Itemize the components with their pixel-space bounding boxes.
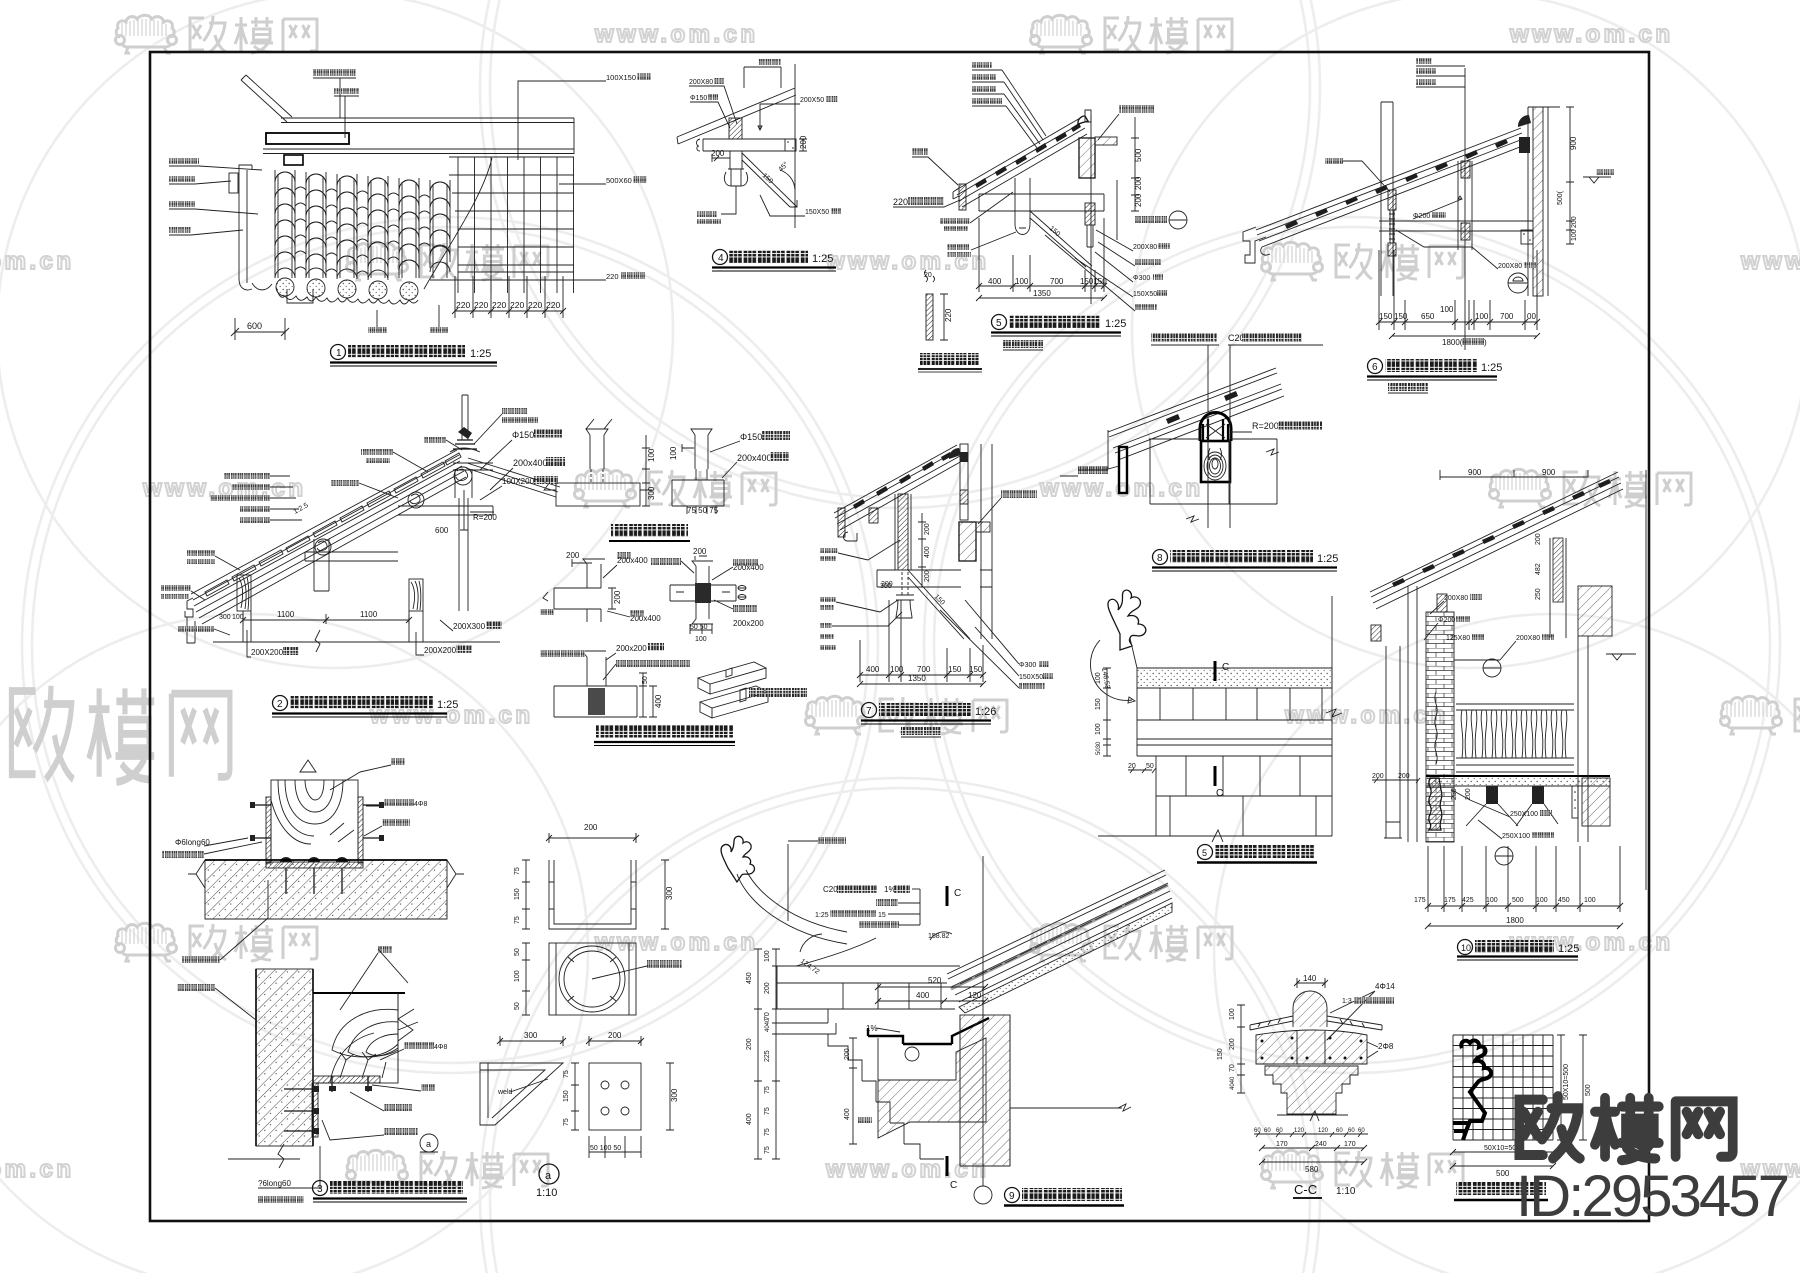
svg-text:200X80: 200X80 xyxy=(1498,263,1522,270)
svg-text:220: 220 xyxy=(944,308,953,322)
svg-text:4: 4 xyxy=(718,253,724,264)
left eave gutter and downpipe xyxy=(185,598,195,643)
svg-text:220: 220 xyxy=(510,300,524,310)
right short slope xyxy=(466,458,560,497)
svg-text:150: 150 xyxy=(514,888,521,900)
svg-text:1100: 1100 xyxy=(360,610,378,619)
leaders to right labels xyxy=(940,600,1019,688)
sculpture outline bold xyxy=(1454,1040,1491,1131)
stipple along slope underside xyxy=(959,903,1172,1013)
dome cap xyxy=(1293,991,1327,1027)
svg-text:50 100 50: 50 100 50 xyxy=(590,1145,621,1152)
svg-text:500(: 500( xyxy=(1557,190,1564,205)
svg-text:170: 170 xyxy=(1344,1141,1356,1148)
diagonal brace xyxy=(1030,211,1092,267)
drawing 3: timber to existing building connection xyxy=(162,758,467,1203)
svg-text:200x400: 200x400 xyxy=(737,453,772,463)
ground xyxy=(1277,1111,1348,1121)
right dims xyxy=(1557,1035,1587,1140)
drawing: beam crossing details xyxy=(540,547,807,746)
watermark: large omw left margin xyxy=(11,686,229,782)
svg-text:?6long60: ?6long60 xyxy=(258,1179,291,1188)
triangle gusset xyxy=(480,1063,563,1125)
svg-text:75: 75 xyxy=(764,1146,771,1154)
svg-text:75: 75 xyxy=(764,1086,771,1094)
dims 520 400 120 xyxy=(875,984,988,990)
side steel plates xyxy=(266,797,271,863)
drawing: steel fittings details xyxy=(480,823,682,1199)
svg-text:482: 482 xyxy=(1535,563,1542,575)
side wings xyxy=(1250,1016,1382,1030)
svg-text:450: 450 xyxy=(746,972,753,984)
svg-text:1:25: 1:25 xyxy=(1481,362,1502,374)
roof slope lines xyxy=(956,117,1087,207)
svg-text:100: 100 xyxy=(1440,305,1454,314)
right hanging member xyxy=(1085,203,1095,225)
break marks xyxy=(1186,449,1279,522)
svg-text:1:25: 1:25 xyxy=(1317,553,1338,565)
left columns xyxy=(1384,586,1417,842)
svg-text:220: 220 xyxy=(606,272,619,281)
svg-text:1:25: 1:25 xyxy=(470,348,491,360)
svg-text:150: 150 xyxy=(1217,1048,1224,1060)
grid xyxy=(1453,1035,1553,1140)
drip edge curve xyxy=(424,158,492,289)
svg-text:200: 200 xyxy=(1398,773,1410,780)
svg-text:120: 120 xyxy=(1294,1128,1305,1134)
left label stack xyxy=(210,473,302,523)
sloped rafter lines xyxy=(677,88,796,144)
C section marks xyxy=(946,886,949,906)
stepped beams xyxy=(305,463,493,561)
beam top line and end xyxy=(398,993,413,1083)
svg-text:200: 200 xyxy=(881,581,893,588)
svg-text:200: 200 xyxy=(608,1031,622,1040)
gutter bold profile xyxy=(868,1028,952,1044)
svg-text:1:25: 1:25 xyxy=(1558,943,1579,955)
svg-text:50X10=50: 50X10=50 xyxy=(1484,1145,1516,1152)
svg-text:R=200: R=200 xyxy=(1252,421,1279,431)
svg-text:70: 70 xyxy=(1229,1064,1236,1072)
round log arch bold xyxy=(1200,412,1231,441)
svg-text:2: 2 xyxy=(277,699,283,710)
plate with 4 holes xyxy=(589,1063,641,1130)
ornament neck curve xyxy=(737,870,847,944)
bottom hook bracket xyxy=(287,289,313,303)
svg-text:220: 220 xyxy=(474,300,488,310)
base plate xyxy=(266,862,363,868)
svg-text:1:25: 1:25 xyxy=(812,253,833,265)
svg-text:5030: 5030 xyxy=(1096,741,1102,755)
dim 200 right xyxy=(799,139,807,151)
drain label xyxy=(858,1117,872,1123)
right ornament column xyxy=(949,448,961,459)
hatched column xyxy=(1079,138,1095,178)
label tile end xyxy=(912,148,928,155)
eave end lines xyxy=(1108,430,1119,469)
dims 900 900 xyxy=(1440,470,1588,480)
label balcony slab xyxy=(1119,105,1155,113)
short post under ridge xyxy=(455,469,472,498)
svg-text:200: 200 xyxy=(566,551,580,560)
right dotted block xyxy=(1521,230,1533,244)
drawing: post on beam details xyxy=(544,419,790,541)
bottom dim chain xyxy=(1428,846,1620,912)
svg-text:Φ200: Φ200 xyxy=(1413,213,1430,220)
svg-text:50 50: 50 50 xyxy=(690,624,708,631)
left labels xyxy=(820,548,838,553)
svg-text:150: 150 xyxy=(1394,312,1408,321)
main left slope xyxy=(191,450,466,624)
detail C bottom xyxy=(554,651,637,717)
svg-text:220: 220 xyxy=(456,300,470,310)
stepped profile down xyxy=(828,1034,944,1159)
drawing C-C section xyxy=(1217,974,1395,1198)
hatched packing block xyxy=(869,508,878,523)
svg-text:450: 450 xyxy=(1558,897,1570,904)
brick pillar xyxy=(1426,612,1454,842)
svg-text:a: a xyxy=(545,1170,552,1182)
svg-text:200x400: 200x400 xyxy=(513,458,548,468)
svg-text:200: 200 xyxy=(1535,533,1542,545)
svg-text:ID:2953457: ID:2953457 xyxy=(1516,1164,1790,1229)
wood grain column xyxy=(1201,441,1230,482)
rosette circles on posts xyxy=(315,467,472,555)
svg-text:250: 250 xyxy=(1535,588,1542,600)
svg-text:2Φ8: 2Φ8 xyxy=(1378,1042,1394,1051)
svg-text:200: 200 xyxy=(1134,176,1143,190)
svg-text:75: 75 xyxy=(764,1128,771,1136)
dim 140 top xyxy=(1294,978,1328,988)
dim 220 xyxy=(940,294,948,340)
svg-text:170: 170 xyxy=(1276,1141,1288,1148)
gutter hatched block xyxy=(878,1038,986,1138)
svg-text:650: 650 xyxy=(1421,312,1435,321)
svg-text:50: 50 xyxy=(1146,763,1154,770)
svg-text:50X10=500: 50X10=500 xyxy=(1563,1064,1570,1100)
balcony slab hatched xyxy=(959,522,976,561)
watermark lattice row B xyxy=(0,242,1800,280)
svg-text:150X50: 150X50 xyxy=(805,209,829,216)
beams horizontal xyxy=(877,570,992,587)
svg-text:5: 5 xyxy=(1202,848,1207,858)
svg-text:C: C xyxy=(954,888,961,899)
anchor heads and rods xyxy=(280,857,348,862)
svg-text:200X80: 200X80 xyxy=(1133,244,1157,251)
angle arc 158 xyxy=(930,932,952,940)
svg-text:1350: 1350 xyxy=(908,674,926,683)
svg-text:75: 75 xyxy=(563,1118,570,1126)
svg-text:1: 1 xyxy=(336,348,342,359)
svg-text:weld: weld xyxy=(497,1089,513,1096)
center post xyxy=(1015,178,1030,235)
concrete slab hatched xyxy=(205,860,447,919)
svg-text:200: 200 xyxy=(584,823,598,832)
purlin bold rect xyxy=(266,133,349,144)
wall axis vertical xyxy=(794,64,796,228)
top label stack xyxy=(1416,58,1465,87)
svg-text:1:26: 1:26 xyxy=(975,706,996,718)
svg-text:1:10: 1:10 xyxy=(1336,1186,1356,1197)
ground line xyxy=(1098,830,1332,842)
detail B cross xyxy=(670,561,736,624)
left leader label B1 xyxy=(169,158,199,164)
svg-text:200: 200 xyxy=(693,547,707,556)
svg-text:Φ150: Φ150 xyxy=(740,432,762,442)
diagonal brace 45 xyxy=(742,153,797,207)
purlin beam lines xyxy=(263,118,574,154)
dim 600 xyxy=(231,318,289,340)
ground below column xyxy=(228,1144,300,1168)
right tall column lines xyxy=(981,444,992,639)
svg-text:100: 100 xyxy=(1229,1008,1236,1020)
svg-text:200: 200 xyxy=(613,590,622,604)
detail circle b xyxy=(1495,847,1513,865)
svg-text:220: 220 xyxy=(893,197,908,207)
eave board profile xyxy=(239,165,272,290)
wood beam with grain xyxy=(313,993,398,1083)
svg-text:500: 500 xyxy=(1496,1169,1510,1178)
svg-text:425: 425 xyxy=(1462,897,1474,904)
horizontal tie beam xyxy=(697,139,797,151)
right label stack with leaders xyxy=(1045,230,1170,311)
left leader label B2 xyxy=(169,176,195,182)
small clip rect xyxy=(229,173,238,193)
dims vertical mid xyxy=(918,513,926,587)
dim 1100 1100 xyxy=(243,614,409,624)
svg-text:100X200: 100X200 xyxy=(502,477,535,486)
drawing: fascia board detail (small) xyxy=(918,270,982,372)
baluster ornament inside pillar xyxy=(1435,692,1437,764)
svg-text:100: 100 xyxy=(1475,312,1489,321)
title 10 xyxy=(1458,940,1473,955)
top slab stippled xyxy=(1137,668,1332,688)
svg-text:1100: 1100 xyxy=(277,610,295,619)
detail b post xyxy=(691,429,712,469)
svg-text:1%: 1% xyxy=(884,885,896,894)
axis vertical and bubble xyxy=(982,856,984,1186)
svg-text:4Φ8: 4Φ8 xyxy=(414,801,427,808)
svg-text:100: 100 xyxy=(695,636,707,643)
rafter and batten grid xyxy=(449,157,574,293)
label fascia xyxy=(1078,466,1108,474)
detail a post xyxy=(586,419,612,469)
svg-text:60: 60 xyxy=(1358,1128,1365,1134)
roof slope double band xyxy=(1108,368,1284,460)
eave gutter end xyxy=(1243,227,1270,263)
svg-text:100: 100 xyxy=(232,614,244,621)
svg-text:125X80: 125X80 xyxy=(1446,635,1470,642)
svg-text:100: 100 xyxy=(1015,277,1029,286)
ornate corbel under floor left xyxy=(1429,778,1442,830)
svg-text:150: 150 xyxy=(1379,312,1393,321)
title post-on-beam xyxy=(611,524,688,537)
lower: concrete column hatched xyxy=(256,969,313,1146)
svg-text:500: 500 xyxy=(1512,897,1524,904)
drawing 2: timber structure tile roof section xyxy=(161,395,565,717)
svg-text:400: 400 xyxy=(746,1113,753,1125)
svg-text:5: 5 xyxy=(996,318,1002,329)
svg-text:50: 50 xyxy=(642,676,649,684)
svg-text:150150: 150150 xyxy=(1080,277,1107,286)
drawing: sculpture lofting diagram xyxy=(1450,1035,1592,1200)
svg-text:200X80: 200X80 xyxy=(1444,595,1468,602)
roof tile rolls xyxy=(275,170,450,280)
svg-text:120: 120 xyxy=(968,991,982,1000)
corner watermark: big dark logo 欧模网 xyxy=(1519,1096,1732,1160)
title 2 xyxy=(273,696,288,711)
ridge post and finial xyxy=(462,395,468,440)
svg-text:400: 400 xyxy=(988,277,1002,286)
small batten bold rect xyxy=(284,155,303,165)
drawing 5: eave detail one xyxy=(893,62,1187,350)
svg-text:60: 60 xyxy=(1336,1128,1343,1134)
svg-text:100: 100 xyxy=(1536,897,1548,904)
svg-text:200: 200 xyxy=(924,570,931,582)
svg-text:200X80: 200X80 xyxy=(689,79,713,86)
svg-text:100: 100 xyxy=(514,970,521,982)
ridge blob ornament xyxy=(1078,116,1088,124)
dims U channel xyxy=(546,833,639,843)
svg-text:175: 175 xyxy=(1414,897,1426,904)
svg-text:500: 500 xyxy=(1134,148,1143,162)
labels upper middle xyxy=(361,449,393,455)
gutter hook xyxy=(843,532,857,541)
svg-text:150: 150 xyxy=(563,1090,570,1102)
svg-text:60: 60 xyxy=(1254,1128,1261,1134)
watermark lattice row D xyxy=(369,696,1800,734)
label ridge detail xyxy=(502,408,528,414)
svg-text:175: 175 xyxy=(1444,897,1456,904)
axis line right xyxy=(1645,470,1647,890)
label fascia left xyxy=(1325,158,1343,164)
post below beam xyxy=(730,151,742,169)
svg-text:250X100: 250X100 xyxy=(1502,833,1530,840)
slope lines xyxy=(834,445,962,530)
svg-text:C: C xyxy=(950,1180,957,1191)
svg-text:150: 150 xyxy=(948,665,962,674)
eave end board xyxy=(959,184,966,210)
svg-text:C: C xyxy=(1216,788,1223,799)
bolts lower xyxy=(284,1089,313,1131)
watermark lattice row E xyxy=(116,923,1671,961)
dim 600 vertical xyxy=(460,490,468,530)
svg-text:200: 200 xyxy=(1229,1038,1236,1050)
dims detail a xyxy=(642,435,650,506)
svg-text:Φ150: Φ150 xyxy=(512,430,534,440)
curly ornament xyxy=(1108,590,1146,650)
svg-text:4040: 4040 xyxy=(765,1018,771,1032)
svg-text:200: 200 xyxy=(1134,193,1143,207)
svg-text:150X50: 150X50 xyxy=(1019,674,1043,681)
left leader label B3 xyxy=(169,201,195,207)
bottom dim chain xyxy=(1379,250,1537,330)
tile battens on slope xyxy=(205,453,461,596)
wall right below xyxy=(1104,180,1117,240)
wall hatched column xyxy=(960,1015,1010,1166)
top slab band with bricks xyxy=(777,966,960,1009)
dark block under slope xyxy=(1519,137,1530,153)
drawing 10: new balcony detail xyxy=(1370,468,1646,960)
right edge line xyxy=(1326,596,1342,836)
svg-text:50: 50 xyxy=(514,1002,521,1010)
center plain post xyxy=(314,539,329,591)
drawing sheet frame xyxy=(150,52,1649,1221)
svg-text:900: 900 xyxy=(1542,468,1556,477)
square with circle xyxy=(549,943,636,1015)
svg-text:75: 75 xyxy=(514,916,521,924)
board strip xyxy=(926,294,933,340)
svg-text:10: 10 xyxy=(1461,943,1471,953)
isometric beams xyxy=(698,662,768,718)
vertical leader and label xyxy=(787,844,789,921)
drawing 7: eave detail three xyxy=(820,444,1053,737)
top slope xyxy=(1370,472,1623,609)
svg-text:600: 600 xyxy=(247,321,262,331)
knob ornament xyxy=(724,169,747,186)
svg-text:200x200: 200x200 xyxy=(616,644,647,653)
svg-text:400: 400 xyxy=(916,991,930,1000)
svg-text:240: 240 xyxy=(1315,1141,1327,1148)
svg-text:200: 200 xyxy=(799,135,808,149)
svg-text:1:25: 1:25 xyxy=(815,912,829,919)
title 5b xyxy=(1198,845,1213,860)
angle arc xyxy=(1090,640,1132,700)
svg-text:Φ150: Φ150 xyxy=(690,95,707,102)
svg-text:200: 200 xyxy=(746,1038,753,1050)
labels lower xyxy=(177,984,215,991)
svg-text:200X200: 200X200 xyxy=(424,646,457,655)
drawing 4: bracket strut detail xyxy=(677,59,841,271)
svg-text:4Φ8: 4Φ8 xyxy=(434,1044,447,1051)
svg-text:400: 400 xyxy=(654,694,663,708)
svg-text:300: 300 xyxy=(524,1031,538,1040)
svg-text:20: 20 xyxy=(1128,763,1136,770)
horizontal beam xyxy=(979,194,1104,211)
top label xyxy=(758,59,781,65)
drawing 8: eave to brick column connection xyxy=(1060,333,1338,571)
svg-text:700: 700 xyxy=(917,665,931,674)
svg-text:6: 6 xyxy=(1372,362,1378,373)
svg-text:1350: 1350 xyxy=(1033,289,1051,298)
svg-text:100: 100 xyxy=(764,950,771,962)
svg-text:200: 200 xyxy=(764,982,771,994)
svg-text:300: 300 xyxy=(670,1088,679,1102)
watermark lattice row F xyxy=(0,1150,1800,1188)
svg-text:Φ300: Φ300 xyxy=(1133,275,1150,282)
left leader label B4 xyxy=(169,227,191,233)
cornice bands xyxy=(777,1009,836,1034)
horizontal beam xyxy=(1379,221,1533,231)
title 7 xyxy=(862,703,877,718)
svg-text:1%: 1% xyxy=(866,1024,878,1033)
pendant ornament xyxy=(896,595,914,618)
svg-text:220: 220 xyxy=(492,300,506,310)
svg-text:220: 220 xyxy=(528,300,542,310)
diagonal strut xyxy=(241,75,292,122)
mid post with hatch xyxy=(1461,161,1470,178)
svg-text:100: 100 xyxy=(669,446,678,460)
bottom dims xyxy=(979,218,1104,292)
dims left xyxy=(1372,778,1420,783)
svg-text:a: a xyxy=(426,1139,431,1149)
svg-text:C-C: C-C xyxy=(1294,1182,1317,1197)
svg-text:158.82: 158.82 xyxy=(928,933,950,940)
title fascia xyxy=(920,353,980,365)
svg-text:1800: 1800 xyxy=(1506,916,1524,925)
svg-text:00: 00 xyxy=(1527,312,1536,321)
svg-text:1:25: 1:25 xyxy=(437,699,458,711)
